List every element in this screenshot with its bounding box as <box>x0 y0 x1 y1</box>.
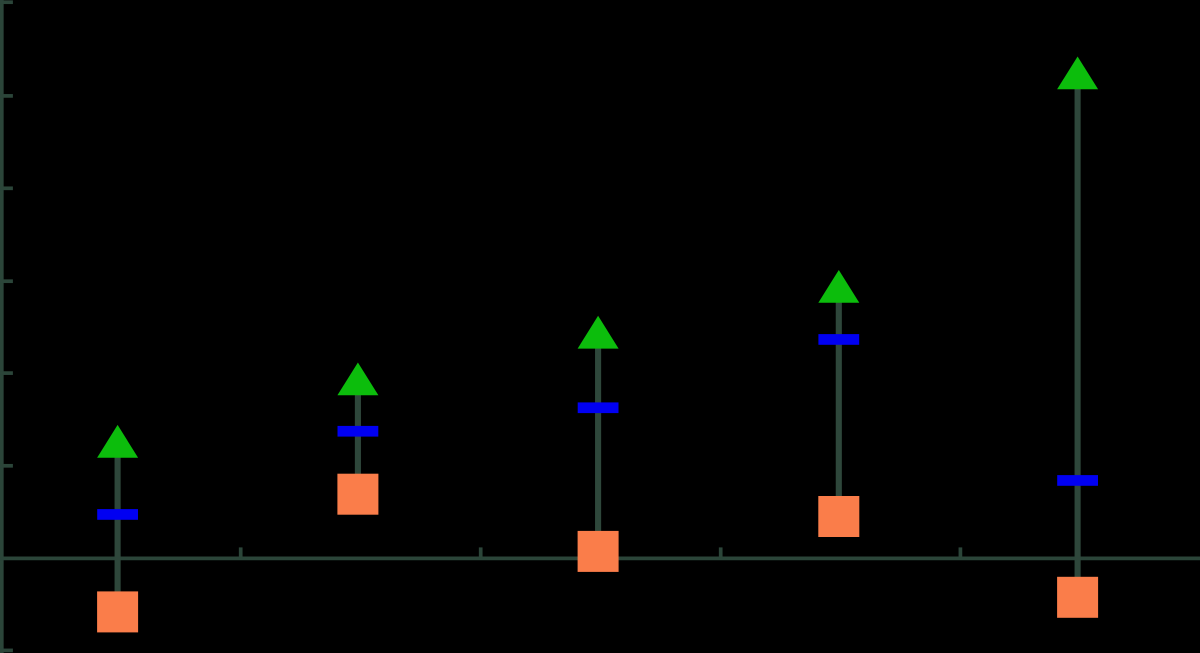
point 4 triangle marker <box>818 270 859 303</box>
x-axis ticks <box>241 547 961 558</box>
point 3 triangle marker <box>578 316 619 349</box>
y-axis ticks <box>0 2 13 650</box>
point 1 triangle marker <box>97 425 138 458</box>
point 3 square marker <box>578 531 619 572</box>
point 1 square marker <box>97 591 138 632</box>
point 1 dash marker <box>97 509 138 520</box>
point 3 vline <box>595 332 601 551</box>
point 5 dash marker <box>1057 475 1098 486</box>
x-axis spine <box>0 557 1200 561</box>
y-axis spine <box>0 0 4 653</box>
point 3 dash marker <box>578 402 619 413</box>
point 5 square marker <box>1057 577 1098 618</box>
point 2 triangle marker <box>337 363 378 396</box>
point 2 square marker <box>337 474 378 515</box>
point 4 vline <box>836 286 842 516</box>
point 1 vline <box>115 441 121 612</box>
point 4 dash marker <box>818 334 859 345</box>
point 2 vline <box>355 379 361 494</box>
point 2 dash marker <box>338 426 379 437</box>
point 5 vline <box>1075 73 1081 597</box>
point 4 square marker <box>818 496 859 537</box>
point 5 triangle marker <box>1057 57 1098 90</box>
